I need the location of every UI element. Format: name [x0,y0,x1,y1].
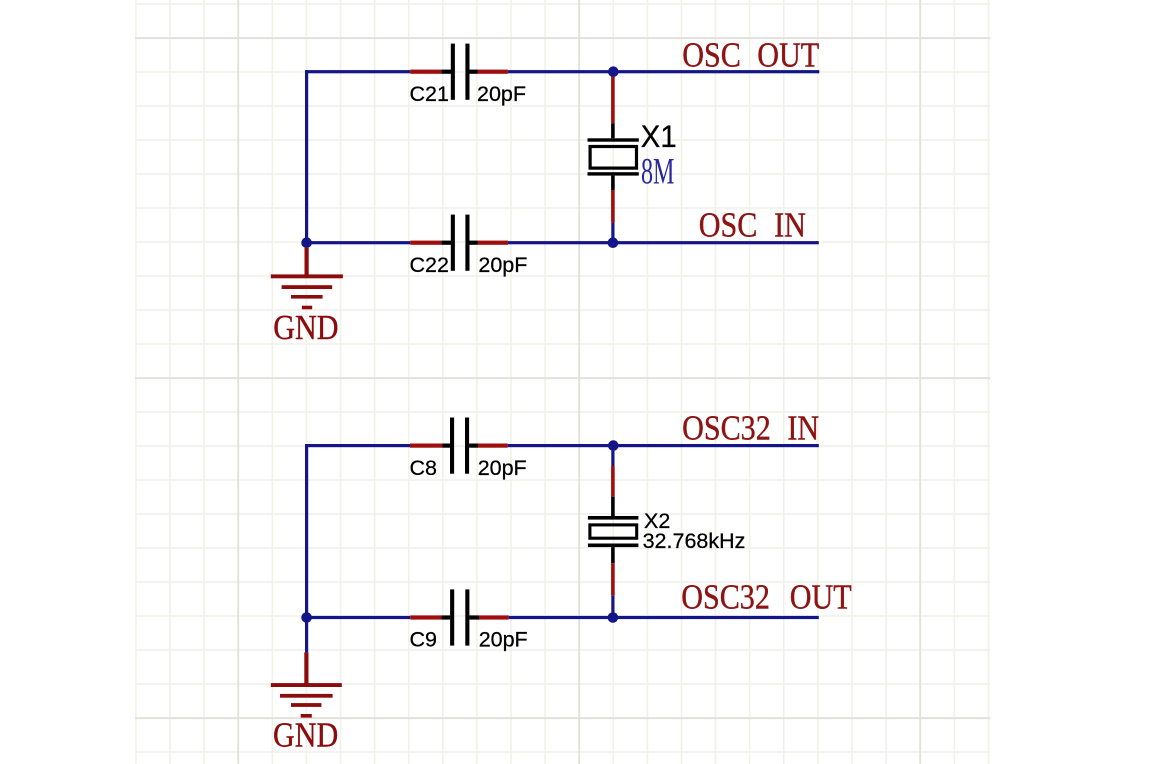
svg-text:20pF: 20pF [479,628,528,652]
svg-text:C9: C9 [410,628,437,652]
capacitor C8 [410,418,508,474]
svg-text:C8: C8 [410,456,438,480]
svg-text:C22: C22 [410,253,449,277]
wire 2 bottom horizontal right segment [509,616,819,619]
wire bottom horizontal left segment [305,241,410,244]
net label OSC_IN [699,207,806,245]
junction node OSC32_OUT [608,612,619,623]
crystal X1 [588,77,639,242]
net label OSC32_OUT [681,578,852,616]
wire 2 bottom horizontal left segment [305,616,410,619]
svg-text:OSC32: OSC32 [681,578,770,616]
svg-text:20pF: 20pF [477,82,526,106]
capacitor C22 [410,215,508,271]
power port GND 1 [271,248,343,310]
junction node GND corner [301,237,312,248]
svg-text:C21: C21 [410,82,449,106]
svg-text:GND: GND [273,309,338,347]
svg-text:IN: IN [774,207,806,245]
junction node GND 2 corner [301,612,312,623]
capacitor C9 [410,589,508,645]
capacitor C21 [410,44,508,100]
net label OSC32_IN [682,410,819,448]
junction node OSC32_IN [608,440,619,451]
svg-text:OUT: OUT [757,37,819,75]
svg-text:OSC: OSC [682,37,741,75]
power port GND 2 [271,652,342,717]
crystal X2 [588,451,639,613]
svg-text:OSC32: OSC32 [682,410,771,448]
svg-text:20pF: 20pF [478,253,527,277]
wire 2 top-left vertical [305,444,308,619]
svg-text:IN: IN [787,410,819,448]
wire top-left vertical [305,70,308,244]
junction node OSC_OUT [608,66,619,77]
wire bottom horizontal right segment [508,241,819,244]
wire 2 top horizontal left segment [305,444,410,447]
svg-text:OSC: OSC [699,207,758,245]
svg-text:20pF: 20pF [478,456,527,480]
wire GND 2 stub [305,618,308,653]
schematic grid background [135,0,991,764]
svg-text:8M: 8M [641,151,674,192]
svg-text:X1: X1 [641,119,677,154]
net label OSC_OUT [682,37,819,75]
junction node OSC_IN [608,237,619,248]
wire top horizontal right segment [508,70,819,73]
svg-text:OUT: OUT [790,578,852,616]
svg-text:32.768kHz: 32.768kHz [643,529,746,553]
wire top horizontal left segment [305,70,410,73]
svg-text:GND: GND [273,717,338,755]
wire 2 top horizontal right segment [508,444,819,447]
